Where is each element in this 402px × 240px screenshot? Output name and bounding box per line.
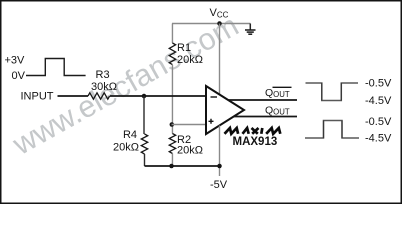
resistor R1 [169, 43, 175, 65]
svg-text:-5V: -5V [210, 179, 228, 191]
svg-text:-4.5V: -4.5V [365, 95, 392, 107]
svg-text:R4: R4 [123, 129, 137, 141]
svg-text:QOUT: QOUT [265, 105, 290, 117]
wire VCC dot down to comparator top [219, 24, 221, 95]
minus input marker [211, 96, 218, 98]
wire R1 bottom to R2 top (crosses input line) [171, 65, 173, 134]
svg-text:-0.5V: -0.5V [365, 78, 392, 90]
node junction dot -5V rail [217, 164, 222, 169]
ground [249, 24, 251, 30]
node junction dot VCC [217, 21, 222, 26]
node junction dot R2 bottom [169, 164, 174, 169]
resistor R2 [169, 134, 175, 154]
svg-text:+3V: +3V [5, 55, 26, 67]
svg-text:-0.5V: -0.5V [365, 116, 392, 128]
wire input line left of R3 [58, 95, 89, 97]
plus input marker [209, 119, 214, 124]
svg-text:R3: R3 [96, 69, 110, 81]
input pulse waveform [26, 59, 86, 76]
svg-text:MAX913: MAX913 [233, 136, 278, 148]
wire input line right of R3 to inverting input [110, 95, 206, 97]
wire noninverting input [172, 124, 207, 126]
node junction dot input/R4 [142, 94, 147, 99]
op-amp U1 comparator MAX913 [206, 86, 244, 134]
svg-text:20kΩ: 20kΩ [113, 142, 139, 154]
node junction dot + tap [170, 122, 175, 127]
svg-text:-4.5V: -4.5V [365, 133, 392, 145]
wire output Q [234, 116, 298, 118]
svg-text:20kΩ: 20kΩ [177, 54, 203, 66]
wire R4 bottom [144, 154, 146, 166]
wire VCC rail [172, 23, 250, 25]
wire VCC left drop to R1 [171, 24, 173, 44]
resistor R3 [88, 93, 110, 99]
output waveform Q-bar [306, 83, 359, 101]
svg-text:INPUT: INPUT [21, 91, 54, 103]
wire R4 branch down [143, 96, 145, 134]
resistor R4 [141, 134, 147, 154]
svg-text:0V: 0V [12, 70, 26, 82]
wire output Q-bar [228, 99, 297, 101]
output waveform Q [305, 121, 359, 139]
svg-text:R1: R1 [177, 42, 191, 54]
svg-text:QOUT: QOUT [265, 87, 290, 99]
wire bottom rail [145, 165, 220, 167]
svg-text:30kΩ: 30kΩ [91, 81, 117, 93]
wire R2 bottom to bottom rail [171, 154, 173, 167]
MAXIM logo [225, 128, 281, 134]
wire comparator bottom to -5V node [219, 126, 221, 177]
svg-text:20kΩ: 20kΩ [177, 145, 203, 157]
